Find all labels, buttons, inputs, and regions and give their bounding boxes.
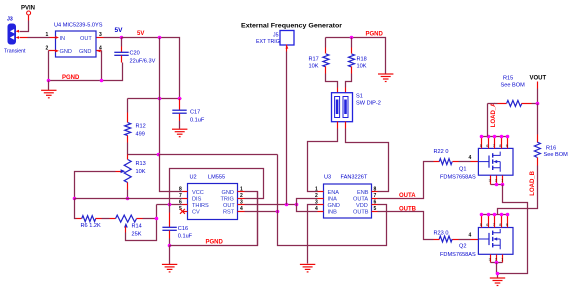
svg-text:5: 5	[480, 223, 482, 227]
svg-text:VDD: VDD	[356, 203, 368, 209]
ground symbol below U4 rail	[41, 81, 56, 98]
Q2 source bus	[491, 262, 503, 264]
S1 bottom pin stubs	[338, 122, 346, 129]
U2 pin 3	[238, 199, 245, 205]
wire OUT line	[245, 204, 297, 206]
svg-text:9: 9	[506, 144, 508, 148]
U4 pin 4 arrow	[97, 49, 101, 52]
wire U3 GND drop to ground	[308, 205, 318, 264]
U3 pin 5	[372, 206, 378, 212]
Q2 drain pin stubs top	[480, 215, 508, 228]
svg-text:R22 0: R22 0	[434, 149, 449, 155]
resistor R22 0	[434, 149, 479, 165]
svg-text:LM555: LM555	[208, 175, 225, 181]
U2 pin 7	[179, 193, 188, 199]
svg-text:C20: C20	[130, 51, 140, 57]
svg-text:R16: R16	[546, 146, 556, 152]
U4 pin 2 stub and wire down to PGND rail	[49, 51, 56, 81]
resistor R6 1.2K	[77, 216, 110, 229]
svg-text:6: 6	[179, 199, 182, 205]
svg-text:INA: INA	[328, 197, 338, 203]
wire OUT to INB	[297, 205, 318, 212]
wire DIS rail y198	[75, 198, 183, 200]
J3 pin 2 arrow	[16, 36, 20, 39]
wire R13 wiper to left column	[75, 172, 116, 199]
Q1 drain bus	[482, 136, 508, 138]
svg-text:CV: CV	[192, 210, 200, 216]
timer U2 LM555	[188, 175, 238, 220]
svg-text:OUTB: OUTB	[353, 210, 369, 216]
svg-text:1: 1	[46, 32, 49, 38]
Q1 source bus	[491, 184, 503, 186]
wire Q1 source to ground run	[498, 185, 528, 274]
svg-text:9: 9	[506, 223, 508, 227]
U4 pin 3 stub to 5V junction	[97, 37, 122, 39]
svg-text:3: 3	[489, 257, 491, 261]
svg-text:See BOM: See BOM	[501, 83, 526, 89]
U2 pin 6	[179, 199, 188, 205]
J3 pin 1 arrow	[16, 30, 20, 33]
U4 pin 1 arrow	[55, 36, 59, 39]
U3 pin 8	[372, 186, 378, 192]
ground symbol below U3	[300, 264, 315, 272]
potentiometer R13 10K	[124, 155, 146, 199]
J5 pin stub	[286, 45, 288, 52]
PGND rail under U4	[49, 63, 123, 81]
wire R12 bottom to VCC column	[128, 154, 159, 156]
transistor Q1 FDMS7658AS	[440, 148, 513, 180]
wire S1 right to ENB	[346, 129, 389, 192]
Q2 source pin stubs bottom	[489, 255, 504, 263]
junction dot R18 / PGND rail	[350, 36, 354, 40]
wire VCC from 5V column	[160, 155, 183, 192]
wire OUTB to R23	[378, 212, 434, 240]
J5 pin arrow	[286, 45, 289, 48]
svg-text:4: 4	[469, 155, 472, 161]
regulator U4 MIC5239-5.0YS	[54, 23, 103, 58]
PVIN terminal	[21, 6, 35, 21]
PGND rail top	[326, 38, 386, 74]
junction dot R13 bottom / DIS rail	[126, 197, 130, 201]
svg-text:10K: 10K	[136, 169, 146, 175]
svg-text:LOAD_B: LOAD_B	[530, 170, 536, 195]
svg-text:R13: R13	[136, 161, 146, 167]
Q1 source pin stubs bottom	[489, 176, 504, 185]
wire LOAD_A drop	[487, 104, 489, 137]
capacitor C17	[172, 99, 205, 129]
svg-text:Transient: Transient	[4, 48, 26, 54]
svg-text:ENA: ENA	[328, 190, 340, 196]
U4 pin 2 arrow	[55, 49, 59, 52]
Q2 drain bus	[482, 214, 508, 216]
svg-text:LOAD_A: LOAD_A	[491, 102, 497, 127]
ground symbol below C17	[172, 129, 187, 137]
svg-text:1: 1	[501, 257, 503, 261]
svg-text:4: 4	[469, 233, 472, 239]
svg-text:GND: GND	[222, 190, 234, 196]
R13 wiper arrow	[116, 169, 126, 173]
Q1 source bus dots	[495, 183, 505, 187]
junction dot VOUT / R15 / R16	[536, 102, 540, 106]
U3 pin 3	[315, 199, 324, 205]
svg-text:0.1uF: 0.1uF	[190, 118, 205, 124]
resistor R12 499	[125, 99, 146, 155]
svg-text:Q1: Q1	[459, 167, 466, 173]
junction dot U4 pin4 / rail	[100, 79, 104, 83]
ground symbol below C16 rail	[162, 246, 177, 272]
junction dot C16 bottom / PGND rail	[168, 244, 172, 248]
ground symbol below Q2	[490, 278, 505, 286]
svg-text:U2: U2	[190, 175, 197, 181]
svg-text:FDMS7658AS: FDMS7658AS	[440, 252, 476, 258]
svg-text:499: 499	[136, 132, 145, 138]
svg-text:6: 6	[486, 144, 488, 148]
svg-text:R23 0: R23 0	[434, 230, 449, 236]
svg-text:ENB: ENB	[357, 190, 369, 196]
capacitor C16	[162, 205, 192, 246]
svg-text:See BOM: See BOM	[544, 152, 569, 158]
resistor R23 0	[434, 230, 479, 242]
wire R18 to S1 right pin	[346, 74, 352, 88]
svg-text:3: 3	[489, 178, 491, 182]
svg-text:FAN3226T: FAN3226T	[341, 175, 368, 181]
U4 pin 4 stub and wire down to PGND rail	[97, 51, 102, 81]
svg-text:22uF/6.3V: 22uF/6.3V	[130, 59, 156, 65]
wire 5V drop to VDD tie	[278, 155, 387, 246]
svg-text:RST: RST	[223, 210, 235, 216]
svg-text:1: 1	[501, 178, 503, 182]
resistor R16 See BOM	[534, 104, 568, 166]
junction dot source ground tie	[496, 272, 500, 276]
svg-text:GND: GND	[60, 49, 72, 55]
junction dot R14 right / wiper column	[155, 217, 159, 221]
svg-text:J3: J3	[7, 16, 13, 22]
svg-text:IN: IN	[60, 36, 66, 42]
svg-text:THIRS: THIRS	[192, 203, 209, 209]
svg-text:5V: 5V	[137, 31, 144, 37]
U2 pin 5 no-connect X	[179, 206, 188, 214]
svg-text:R12: R12	[136, 124, 146, 130]
U3 pin 7	[372, 193, 378, 199]
svg-text:EXT TRIG: EXT TRIG	[256, 39, 280, 45]
svg-text:SW DIP-2: SW DIP-2	[356, 101, 381, 107]
svg-text:R15: R15	[503, 76, 513, 82]
Q1 drain bus junction dots	[480, 135, 510, 139]
Q2 drain bus junction dots	[480, 213, 510, 217]
svg-text:U3: U3	[324, 175, 331, 181]
svg-text:25K: 25K	[132, 232, 142, 238]
connector J3	[4, 16, 26, 54]
Q1 drain pin stubs top	[480, 137, 508, 149]
svg-text:GND: GND	[79, 49, 91, 55]
wire RST line	[245, 211, 278, 213]
junction dot 5V	[120, 36, 124, 40]
svg-text:J5: J5	[273, 33, 279, 39]
resistor R18 10K	[349, 38, 367, 74]
svg-text:GND: GND	[328, 203, 340, 209]
svg-text:R14: R14	[132, 224, 142, 230]
wire OUT to INA	[297, 199, 318, 205]
wire left column down to R6	[75, 199, 77, 219]
svg-text:C17: C17	[190, 110, 200, 116]
U2 pin 2	[238, 193, 245, 199]
wire 5V mid rail y98	[128, 98, 182, 100]
wire R16 to Q2 drain	[498, 166, 538, 215]
svg-text:R18: R18	[357, 56, 367, 62]
wire VCC column x159	[159, 38, 161, 155]
junction dot OUT / INA INB jogs	[295, 203, 299, 207]
wire TRIG loop	[170, 169, 264, 205]
svg-text:C16: C16	[178, 226, 188, 232]
svg-text:Q2: Q2	[459, 244, 466, 250]
svg-text:VCC: VCC	[192, 190, 204, 196]
junction dot THIRS / C16 / TRIG loop	[168, 203, 172, 207]
wire J3 pin2 to U4 pin1	[20, 37, 56, 39]
svg-text:R6 1.2K: R6 1.2K	[81, 223, 101, 229]
U3 pin 2	[315, 193, 324, 199]
svg-text:8: 8	[499, 223, 501, 227]
junction dot rail98 / VCC column	[158, 97, 162, 101]
svg-text:8: 8	[499, 144, 501, 148]
wire Q2 source to ground	[497, 263, 498, 278]
U2 pin 1	[238, 186, 245, 192]
svg-text:DIS: DIS	[192, 197, 202, 203]
U2 pin 4	[238, 206, 245, 212]
wire OUTA to R22	[378, 162, 434, 199]
svg-text:FDMS7658AS: FDMS7658AS	[440, 175, 476, 181]
wire R17 to S1 left pin	[326, 74, 338, 88]
U3 pin 6	[372, 199, 378, 205]
svg-text:7: 7	[493, 223, 495, 227]
svg-text:R17: R17	[309, 56, 319, 62]
svg-text:External Frequency Generator: External Frequency Generator	[241, 23, 343, 29]
resistor R17 10K	[309, 38, 329, 74]
svg-text:S1: S1	[356, 94, 363, 100]
Q2 source bus dots	[495, 261, 499, 265]
wire U2 GND drop	[257, 192, 259, 246]
svg-text:0.1uF: 0.1uF	[178, 234, 193, 240]
junction dot rail98 / C17	[178, 97, 182, 101]
svg-text:2: 2	[495, 178, 497, 182]
wire 5V rail top	[122, 38, 180, 99]
svg-text:OUT: OUT	[223, 203, 235, 209]
driver U3 FAN3226T	[324, 175, 372, 219]
svg-text:5: 5	[480, 144, 482, 148]
VOUT terminal	[530, 75, 547, 103]
junction dot 4-way 5V x159 y154	[157, 153, 161, 157]
svg-text:6: 6	[486, 223, 488, 227]
svg-text:OUT: OUT	[80, 36, 92, 42]
svg-text:PGND: PGND	[206, 239, 224, 245]
U3 pin 4	[315, 206, 324, 212]
svg-text:INB: INB	[328, 210, 338, 216]
capacitor C20	[114, 38, 155, 65]
svg-text:VOUT: VOUT	[530, 75, 547, 81]
wire PGND rail y245	[170, 192, 258, 246]
wire PVIN to J3 pin1	[20, 21, 29, 32]
svg-text:10K: 10K	[357, 63, 367, 69]
svg-text:10K: 10K	[309, 63, 319, 69]
switch S1 SW DIP-2	[332, 93, 381, 122]
wire 5V feed to RST/VDD column	[159, 154, 278, 156]
svg-text:5V: 5V	[115, 27, 124, 34]
svg-text:7: 7	[493, 144, 495, 148]
junction dot left column / DIS rail	[73, 197, 77, 201]
junction dot U4 pin2 / ground	[47, 79, 51, 83]
wire S1 left to ENA	[308, 129, 338, 192]
transistor Q2 FDMS7658AS	[440, 228, 513, 258]
wire R14 wiper loop to THIRS	[126, 205, 157, 241]
connector J5 EXT TRIG	[256, 31, 294, 46]
resistor R15 See BOM	[488, 76, 538, 107]
U2 pin 8	[179, 186, 188, 192]
wire THIRS line	[157, 204, 183, 206]
svg-text:OUTA: OUTA	[353, 197, 368, 203]
S1 top pin stubs	[338, 88, 346, 93]
svg-text:PGND: PGND	[62, 75, 80, 81]
svg-text:7: 7	[179, 193, 182, 199]
junction dot OUT / J5 column	[285, 203, 289, 207]
potentiometer R14 25K	[110, 215, 157, 237]
junction dot RST / 5V column	[276, 210, 280, 214]
U3 pin 1	[315, 186, 324, 192]
junction dot 5V rail / C17 column	[158, 36, 162, 40]
svg-text:U4 MIC5239-5.0YS: U4 MIC5239-5.0YS	[54, 23, 103, 29]
wire J5 down to OUT line	[286, 52, 288, 205]
ground symbol top right	[378, 74, 393, 82]
svg-text:PGND: PGND	[366, 32, 384, 38]
R14 wiper arrow	[124, 223, 128, 233]
svg-text:TRIG: TRIG	[221, 197, 234, 203]
